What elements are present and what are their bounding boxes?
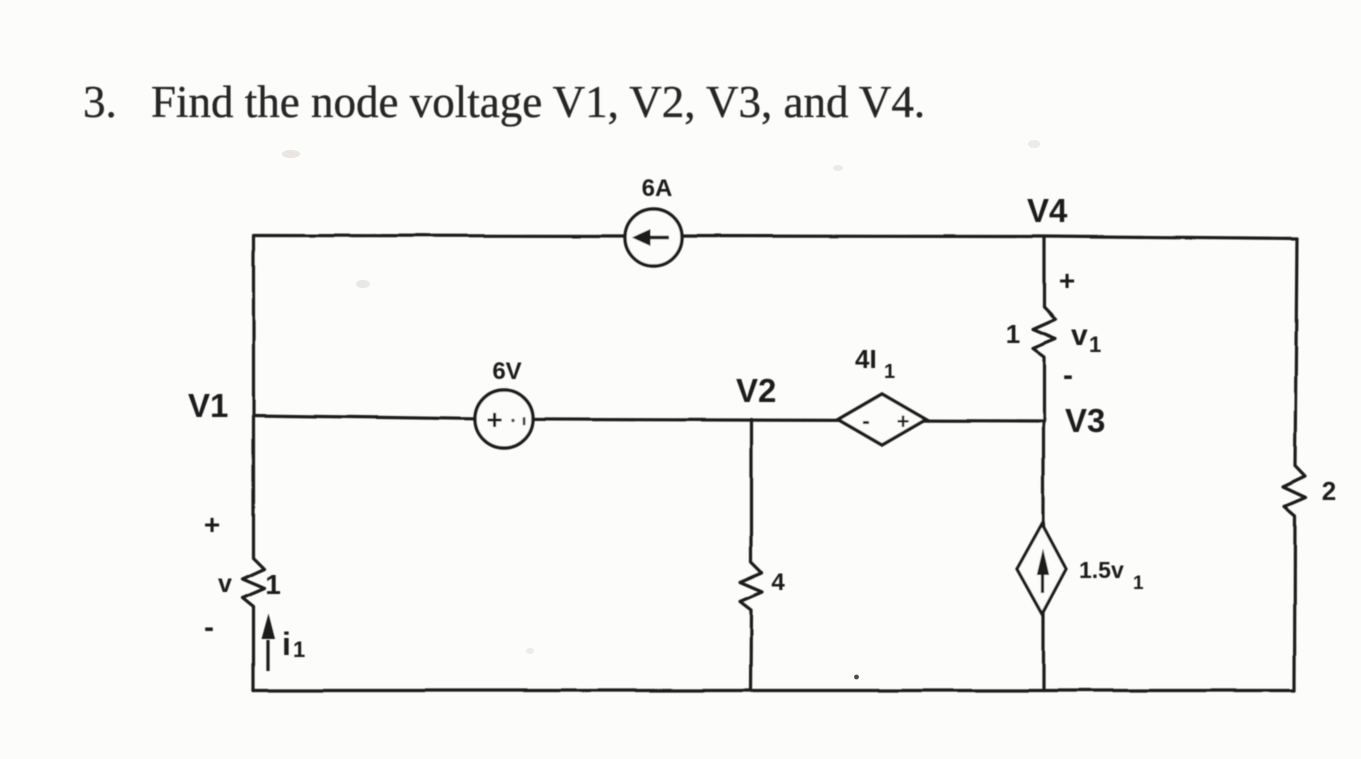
svg-text:v: v (218, 570, 232, 598)
wire top (node V4 net) (254, 236, 1298, 240)
wire middle horizontal (V1 - V2 - V3 net) (254, 416, 1045, 422)
wire V2 branch with resistor 4 ohm zigzag (740, 420, 762, 691)
svg-text:-: - (204, 611, 214, 644)
svg-text:4I: 4I (855, 344, 877, 374)
wire left vertical with resistor R (v,1 ohm) zigzag (243, 237, 265, 691)
svg-text:1: 1 (293, 637, 305, 662)
svg-text:3.: 3. (83, 77, 117, 127)
current source 6A (circle with left arrow) (625, 209, 682, 266)
svg-text:Find the node voltage V1, V2,: Find the node voltage V1, V2, V3, and V4… (151, 77, 925, 127)
svg-text:-: - (862, 408, 870, 435)
scan speck (dark dot above bottom wire) (854, 675, 859, 680)
svg-text:6V: 6V (492, 358, 521, 385)
svg-text:V2: V2 (736, 372, 776, 409)
svg-text:2: 2 (1322, 476, 1336, 506)
voltage source 6V (circle with +) (475, 390, 533, 448)
dependent current source 1.5v1 (diamond with up arrow) (1017, 524, 1066, 614)
svg-text:1.5v: 1.5v (1079, 557, 1124, 583)
svg-text:1: 1 (1006, 319, 1020, 349)
svg-text:V4: V4 (1027, 192, 1068, 229)
svg-text:+: + (486, 404, 502, 435)
svg-text:-: - (1063, 359, 1073, 392)
svg-text:1: 1 (1133, 573, 1144, 594)
svg-text:1: 1 (884, 361, 895, 383)
svg-text:V3: V3 (1065, 402, 1105, 439)
scan smudges (faint) (282, 150, 300, 158)
svg-text:i: i (282, 626, 291, 662)
svg-text:+: + (897, 409, 910, 434)
svg-text:6A: 6A (642, 175, 673, 202)
svg-text:+: + (204, 509, 220, 540)
svg-text:v: v (1071, 319, 1088, 352)
arrow i1 (current arrow, bottom-left) (262, 614, 276, 672)
wire V3 to bottom (1042, 421, 1045, 691)
svg-text:V1: V1 (188, 387, 228, 424)
wire right vertical with resistor 2 ohm zigzag (1283, 239, 1306, 691)
svg-text:1: 1 (265, 569, 281, 600)
wire V4-V3 branch with resistor 1 ohm zigzag (1033, 237, 1056, 421)
svg-text:1: 1 (1089, 332, 1101, 357)
svg-text:4: 4 (771, 569, 785, 596)
wire bottom (ground net) (254, 689, 1295, 692)
svg-text:+: + (1059, 265, 1075, 296)
dependent voltage source 4i1 (diamond with - +) (838, 394, 926, 445)
